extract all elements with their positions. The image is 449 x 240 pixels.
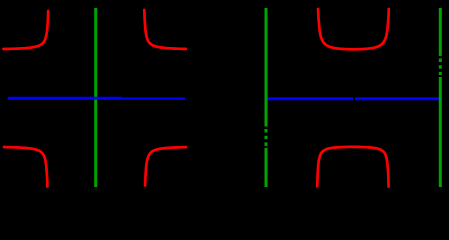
left panel: red hyperbola branch top-right bbox=[144, 10, 186, 49]
right panel: green left asymptote solid upper part bbox=[265, 8, 268, 127]
left panel: red hyperbola branch bottom-left bbox=[4, 147, 47, 187]
right panel: red lower bathtub curve bbox=[317, 147, 388, 187]
right panel: green left asymptote dashed section bbox=[265, 129, 268, 146]
right panel: blue x-axis right of gap bbox=[355, 97, 439, 100]
right panel: red upper bathtub curve bbox=[318, 9, 389, 49]
right panel: green left asymptote solid lower part bbox=[265, 148, 268, 187]
left panel: red hyperbola branch top-left bbox=[4, 11, 49, 49]
left panel: green vertical asymptote line bbox=[94, 8, 97, 187]
right panel: blue x-axis left of gap bbox=[267, 97, 353, 100]
right panel: green right asymptote dashed section bbox=[439, 59, 442, 76]
left panel: blue x-axis thick segment bbox=[8, 97, 122, 100]
left panel: blue x-axis thin segment bbox=[122, 97, 185, 99]
right panel: green right asymptote solid lower part bbox=[439, 77, 442, 187]
left panel: red hyperbola branch bottom-right bbox=[145, 147, 186, 185]
right panel: green right asymptote solid upper part bbox=[439, 8, 442, 56]
